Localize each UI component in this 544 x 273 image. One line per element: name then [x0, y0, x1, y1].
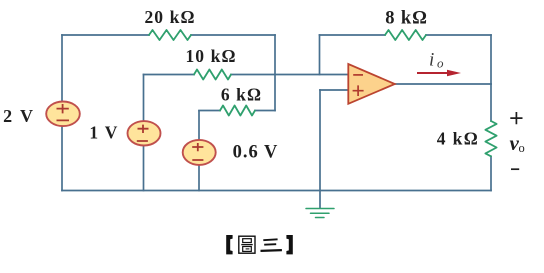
caption glyph San (three) [261, 239, 282, 251]
caption glyph Tu (figure) [239, 236, 255, 253]
source V1 2V [46, 102, 80, 127]
source V3 0.6V [183, 140, 216, 165]
svg-text:6 kΩ: 6 kΩ [221, 85, 262, 105]
svg-text:2 V: 2 V [3, 106, 35, 126]
svg-text:o: o [437, 55, 444, 70]
svg-text:o: o [519, 141, 525, 155]
wire node B down to node D (joins 10k wire and 6k wire) [274, 35, 276, 111]
wire feedback tap K up to L [319, 35, 321, 75]
source V2 1V [128, 121, 161, 145]
resistor 20 kOhm [149, 30, 191, 40]
wire bottom rail [62, 190, 491, 192]
wire op-amp plus input to corner Q [320, 89, 348, 91]
wire top rail A to 20k resistor [62, 34, 149, 36]
label + (output polarity) [510, 112, 522, 124]
caption bracket right [286, 235, 292, 254]
svg-text:20 kΩ: 20 kΩ [144, 7, 195, 27]
label - (output polarity) [511, 168, 519, 170]
wire below source V3 to bottom rail [198, 165, 200, 191]
wire 6k branch corner H down to source V3 [198, 111, 200, 140]
wire 20k resistor to node B [191, 34, 275, 36]
wire corner Q down to bottom rail and ground stub [319, 90, 321, 208]
wire 10k branch corner E down to source V2 [143, 75, 145, 122]
wire top-left from node A down left branch [61, 35, 63, 102]
wire inverting input line from corner E through junctions to op-amp [144, 74, 195, 76]
wire 4k resistor to bottom-right corner P [490, 156, 492, 190]
resistor 10 kOhm [194, 70, 231, 80]
svg-text:8 kΩ: 8 kΩ [385, 9, 428, 29]
svg-text:1 V: 1 V [89, 123, 118, 143]
caption bracket left [226, 235, 232, 254]
current arrow io [417, 70, 461, 76]
wire 10k resistor to op-amp minus input [231, 74, 348, 76]
resistor 8 kOhm [385, 30, 426, 40]
wire left branch below source V1 to bottom rail [61, 126, 63, 191]
wire 8k resistor to node M [426, 34, 491, 36]
wire node M down to output node N [490, 35, 492, 84]
wire below source V2 to bottom rail [143, 145, 145, 190]
svg-text:0.6 V: 0.6 V [233, 143, 279, 163]
wire node N down to 4k resistor [490, 84, 492, 121]
svg-text:10 kΩ: 10 kΩ [185, 46, 236, 66]
op-amp U1 [348, 64, 395, 104]
svg-text:4 kΩ: 4 kΩ [437, 129, 479, 149]
wire op-amp output to node N [395, 83, 491, 85]
resistor 6 kOhm [220, 106, 255, 116]
wire corner H to 6k resistor [199, 110, 220, 112]
ground [306, 209, 334, 218]
wire 6k resistor to node D [255, 110, 275, 112]
svg-text:i: i [429, 49, 434, 70]
resistor 4 kOhm (vertical) [485, 121, 496, 156]
wire L to 8k resistor [320, 34, 386, 36]
